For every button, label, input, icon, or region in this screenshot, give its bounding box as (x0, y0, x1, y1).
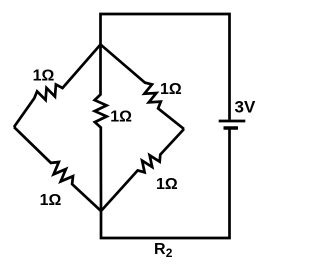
svg-text:2: 2 (166, 246, 173, 260)
svg-text:1Ω: 1Ω (40, 192, 62, 209)
resistor 1Ω bottom-left (between left node and bottom node) (14, 127, 101, 211)
label 3V (battery value) (235, 98, 256, 117)
resistor 1Ω bottom-right (between bottom node and right node) (101, 129, 184, 211)
wire top and right (from top node to battery + plate) (101, 14, 230, 120)
label 1Ω (bottom-left resistor) (40, 192, 62, 209)
label R2 (bottom wire resistor name) (154, 241, 173, 260)
resistor 1Ω middle (vertical, between top node and bottom node) (95, 45, 107, 212)
battery B1 negative plate (224, 126, 239, 130)
wire right-lower and bottom (from battery - plate to bottom node) (101, 130, 230, 239)
svg-text:1Ω: 1Ω (156, 176, 178, 193)
label 1Ω (bottom-right resistor) (156, 176, 178, 193)
resistor 1Ω top-right (between top node and right node) (101, 45, 185, 130)
svg-text:1Ω: 1Ω (160, 81, 182, 98)
battery B1 positive plate (219, 120, 246, 123)
svg-text:1Ω: 1Ω (110, 109, 132, 126)
label 1Ω (top-right resistor) (160, 81, 182, 98)
resistor 1Ω top-left (between top node and left node) (14, 45, 101, 128)
svg-text:1Ω: 1Ω (33, 68, 55, 85)
svg-text:3V: 3V (235, 98, 256, 117)
label 1Ω (top-left resistor) (33, 68, 55, 85)
label 1Ω (middle resistor) (110, 109, 132, 126)
svg-text:R: R (154, 241, 166, 258)
